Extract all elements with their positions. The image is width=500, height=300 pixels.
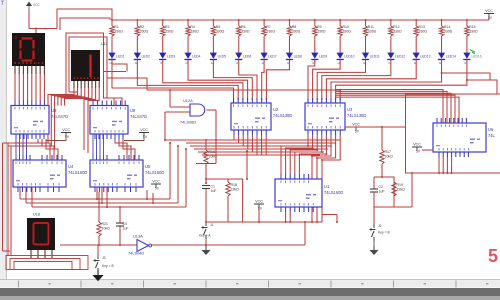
svg-text:VCC: VCC	[152, 180, 160, 184]
svg-text:R10: R10	[342, 25, 348, 29]
svg-text:LED7: LED7	[268, 55, 276, 59]
svg-text:330Ω: 330Ω	[444, 30, 453, 34]
wires U18 nested loops	[6, 256, 88, 270]
svg-text:R19: R19	[397, 183, 403, 187]
display U11 pins	[73, 81, 75, 88]
wire oscillator to U6 loop	[394, 206, 412, 208]
wire VCC power bus	[112, 19, 489, 21]
wire U1 to clock line	[304, 222, 306, 245]
svg-text:330Ω: 330Ω	[114, 30, 123, 34]
svg-text:10kΩ: 10kΩ	[209, 155, 218, 159]
resistor R19 22k Ohm	[392, 182, 405, 196]
resistor R13 330 Ohm	[414, 19, 427, 53]
LED LED14 (blue)	[438, 53, 456, 66]
svg-text:VCC: VCC	[62, 128, 70, 132]
ground J2	[370, 246, 379, 255]
wire U1 to right	[322, 214, 337, 216]
svg-text:G: G	[464, 61, 466, 65]
wire left bus inner vertical	[10, 146, 12, 256]
IC U9 74LS47D	[90, 101, 147, 140]
resistor R10 330 Ohm	[338, 19, 351, 53]
svg-text:LED8: LED8	[294, 55, 302, 59]
wires U8 to U4 blue bus	[15, 134, 17, 160]
svg-text:R6: R6	[241, 25, 246, 29]
svg-text:U3: U3	[347, 107, 353, 112]
svg-text:U1: U1	[324, 184, 330, 189]
svg-text:22kΩ: 22kΩ	[397, 188, 406, 192]
svg-text:G: G	[363, 61, 365, 65]
LED LED10 (blue)	[337, 53, 355, 66]
svg-text:74LS160D: 74LS160D	[68, 170, 87, 175]
svg-text:R1: R1	[114, 25, 119, 29]
svg-text:U2: U2	[273, 107, 279, 112]
wire to gate U12A input A	[169, 89, 171, 91]
power VCC symbol U6	[412, 143, 422, 154]
svg-text:74L: 74L	[488, 133, 496, 138]
svg-text:LED5: LED5	[218, 55, 226, 59]
wires bundle down-left to counters	[169, 143, 171, 199]
svg-text:G: G	[312, 61, 314, 65]
wire VCC to U1	[258, 208, 260, 223]
svg-text:74LS08D: 74LS08D	[180, 120, 196, 125]
power VCC symbol U5	[151, 180, 161, 191]
wires U3 outputs to U1	[281, 135, 308, 174]
LED LED7 (blue)	[261, 53, 277, 66]
resistor R2 330 Ohm	[135, 19, 148, 53]
svg-text:LED12: LED12	[395, 55, 405, 59]
svg-text:LED3: LED3	[167, 55, 175, 59]
IC U8 74LS47D	[11, 101, 68, 140]
LED LED1 (blue)	[108, 53, 124, 66]
power VCC symbol U3	[351, 123, 361, 134]
svg-text:G: G	[160, 61, 162, 65]
svg-text:74LS160D: 74LS160D	[145, 170, 164, 175]
svg-text:U11: U11	[101, 42, 108, 46]
svg-text:R8: R8	[292, 25, 297, 29]
svg-text:LED10: LED10	[344, 55, 354, 59]
resistor R3 330 Ohm	[161, 19, 174, 53]
svg-text:74LS47D: 74LS47D	[51, 114, 68, 119]
IC U6 74LS164D	[433, 118, 496, 157]
wires U5 outputs down	[96, 187, 98, 199]
resistor R11 330 Ohm	[363, 19, 376, 53]
resistor R14 330 Ohm	[439, 19, 452, 53]
svg-text:330Ω: 330Ω	[190, 30, 199, 34]
svg-text:G: G	[236, 61, 238, 65]
svg-text:LED6: LED6	[243, 55, 251, 59]
wire right loop outer	[467, 80, 497, 94]
wires U6 outputs down	[438, 157, 440, 173]
resistor R18 22k Ohm	[226, 179, 239, 222]
7-segment display U11 digit 1	[71, 42, 108, 81]
svg-text:LED4: LED4	[192, 55, 200, 59]
LED LED12 (blue)	[387, 53, 405, 66]
svg-text:LED9: LED9	[319, 55, 327, 59]
svg-text:U13A: U13A	[133, 234, 143, 239]
svg-text:VCC: VCC	[352, 123, 360, 127]
wire left bus outer vertical	[2, 143, 4, 251]
wire to gate U12A input B	[165, 111, 190, 113]
7-segment display U18	[27, 213, 55, 251]
wire arcs above display U11	[57, 9, 112, 29]
wire gate U12A output	[207, 109, 217, 111]
resistor R7 330 Ohm	[262, 19, 275, 53]
svg-text:LED13: LED13	[420, 55, 430, 59]
wire to R17	[381, 127, 383, 150]
svg-text:C2: C2	[379, 185, 384, 189]
svg-text:G: G	[439, 61, 441, 65]
svg-text:G: G	[186, 61, 188, 65]
svg-text:330Ω: 330Ω	[266, 30, 275, 34]
power VCC symbol U1	[254, 200, 264, 211]
wire bus U2/U3 outputs	[165, 139, 340, 141]
wires U2 outputs down	[233, 135, 235, 140]
resistor R17 10k Ohm	[380, 150, 393, 164]
wires through chip gap to U4	[47, 106, 49, 144]
power VCC symbol U9	[139, 128, 149, 139]
wire mesh stubs to display area	[104, 71, 127, 73]
AND gate U12A 74LS08D	[180, 98, 205, 125]
wire U5 to R21	[98, 192, 100, 222]
wire left bus vertical	[7, 143, 9, 256]
wire select line to U3	[147, 89, 340, 91]
wires display U11 to U9	[48, 88, 74, 106]
wires U9 to U5 red jogs	[115, 139, 127, 160]
svg-text:R13: R13	[419, 25, 425, 29]
wires U5 VCC down	[146, 190, 148, 199]
wires U4 outputs down	[19, 187, 21, 199]
svg-text:330Ω: 330Ω	[140, 30, 149, 34]
wires U1 outputs	[285, 212, 287, 222]
svg-text:330Ω: 330Ω	[368, 30, 377, 34]
svg-text:R18: R18	[231, 183, 237, 187]
svg-text:74LS47D: 74LS47D	[130, 114, 147, 119]
svg-text:R16: R16	[209, 150, 215, 154]
LED LED8 (blue)	[286, 53, 302, 66]
LED LED9 (blue)	[311, 53, 327, 66]
wire clock line	[60, 244, 305, 246]
ground J3	[92, 270, 103, 281]
LED LED6 (blue)	[235, 53, 251, 66]
resistor R8 330 Ohm	[287, 19, 300, 53]
LED LED13 (blue)	[413, 53, 431, 66]
svg-text:1uF: 1uF	[123, 227, 129, 231]
power VCC symbol U8	[61, 128, 71, 139]
svg-text:Key = B: Key = B	[102, 264, 114, 268]
ruler bar	[0, 280, 500, 288]
switch J2	[370, 224, 391, 241]
wire oscillator loop left	[206, 179, 243, 222]
svg-text:R14: R14	[444, 25, 450, 29]
svg-text:74LS160D: 74LS160D	[324, 190, 343, 195]
svg-text:U9: U9	[130, 108, 136, 113]
svg-text:R5: R5	[216, 25, 221, 29]
IC U4 74LS160D	[13, 155, 87, 192]
svg-text:330Ω: 330Ω	[292, 30, 301, 34]
switch J1	[199, 222, 214, 239]
wires LED9-LED15 to U3 inputs	[308, 59, 315, 100]
svg-text:G: G	[388, 61, 390, 65]
svg-text:330Ω: 330Ω	[165, 30, 174, 34]
resistor R12 330 Ohm	[389, 19, 402, 53]
display U16 pins	[14, 66, 16, 74]
LED LED11 (blue)	[362, 53, 380, 66]
svg-text:LED2: LED2	[142, 55, 150, 59]
resistor R1 330 Ohm	[110, 19, 123, 53]
svg-text:330Ω: 330Ω	[241, 30, 250, 34]
svg-text:1uF: 1uF	[211, 189, 217, 193]
svg-text:LED11: LED11	[370, 55, 380, 59]
wire from bus to loop	[246, 151, 248, 179]
svg-text:R2: R2	[140, 25, 145, 29]
svg-text:R21: R21	[102, 222, 108, 226]
svg-text:J2: J2	[378, 224, 382, 228]
svg-text:Key = A: Key = A	[199, 234, 211, 238]
LED LED2 (blue)	[134, 53, 150, 66]
wire oscillator loop right	[374, 177, 394, 207]
svg-text:R17: R17	[385, 150, 391, 154]
IC U5 74LS160D	[90, 155, 164, 192]
wires to U6 inputs	[336, 90, 443, 124]
svg-text:74LS04D: 74LS04D	[128, 251, 144, 256]
svg-text:1uF: 1uF	[379, 190, 385, 194]
svg-text:U18: U18	[33, 213, 40, 217]
svg-text:10kΩ: 10kΩ	[102, 227, 111, 231]
svg-text:Key = B: Key = B	[378, 231, 390, 235]
wire rows to counters U4/U5	[20, 198, 170, 200]
wires U3 outputs down right of U1	[312, 135, 331, 222]
svg-text:330Ω: 330Ω	[393, 30, 402, 34]
wire VCC to displays	[28, 12, 30, 29]
svg-text:330Ω: 330Ω	[317, 30, 326, 34]
svg-text:22kΩ: 22kΩ	[231, 188, 240, 192]
svg-text:330Ω: 330Ω	[469, 30, 478, 34]
capacitor C1 1uF	[202, 185, 217, 194]
IC U3 74LS138D	[305, 98, 366, 135]
resistor R16 10k Ohm	[204, 150, 217, 164]
capacitor C2 1uF	[370, 185, 385, 194]
resistor R21 10k Ohm	[97, 222, 110, 236]
svg-text:330Ω: 330Ω	[342, 30, 351, 34]
resistor R4 330 Ohm	[186, 19, 199, 53]
svg-text:R15: R15	[469, 25, 475, 29]
svg-text:VCC: VCC	[485, 9, 493, 13]
LED LED3 (blue)	[159, 53, 175, 66]
scrollbar	[0, 288, 500, 296]
svg-text:R7: R7	[266, 25, 271, 29]
svg-text:G: G	[414, 61, 416, 65]
svg-text:LED16: LED16	[472, 55, 482, 59]
svg-text:G: G	[338, 61, 340, 65]
svg-text:U4: U4	[68, 164, 74, 169]
switch J3	[94, 245, 115, 272]
left panel strip	[0, 0, 7, 280]
wires U9 to U5 blue bus	[92, 134, 94, 160]
svg-text:10kΩ: 10kΩ	[385, 155, 394, 159]
wires display U16 to U8	[14, 74, 16, 101]
svg-text:5V: 5V	[355, 130, 360, 134]
svg-text:5: 5	[488, 246, 498, 266]
resistor R6 330 Ohm	[237, 19, 250, 53]
display U18 pins	[30, 250, 32, 258]
IC U1 74LS160D	[275, 174, 343, 212]
wire U1 bottom bus	[206, 221, 322, 223]
svg-text:U6: U6	[488, 127, 494, 132]
svg-text:U5: U5	[145, 164, 151, 169]
svg-text:R3: R3	[165, 25, 170, 29]
svg-text:U12A: U12A	[183, 98, 193, 103]
svg-text:R12: R12	[393, 25, 399, 29]
svg-text:G: G	[110, 61, 112, 65]
resistor R5 330 Ohm	[211, 19, 224, 53]
power VCC symbol top-right	[484, 9, 494, 20]
svg-text:VCC: VCC	[413, 143, 421, 147]
svg-text:74LS138D: 74LS138D	[347, 113, 366, 118]
resistor R15 330 Ohm	[465, 19, 478, 53]
svg-text:5V: 5V	[416, 150, 421, 154]
wire right loop inner	[442, 73, 490, 80]
IC U2 74LS138D	[231, 98, 292, 135]
LED LED16 (green, lit)	[463, 50, 481, 66]
svg-text:U8: U8	[51, 108, 57, 113]
svg-text:C1: C1	[211, 185, 216, 189]
svg-text:VCC: VCC	[140, 128, 148, 132]
svg-text:74LS138D: 74LS138D	[273, 113, 292, 118]
svg-text:J1: J1	[210, 223, 214, 227]
svg-text:R11: R11	[368, 25, 374, 29]
svg-text:5V: 5V	[155, 187, 160, 191]
svg-text:C4: C4	[123, 222, 128, 226]
svg-text:LED14: LED14	[446, 55, 456, 59]
wire bus to R16	[205, 139, 207, 141]
svg-text:G: G	[287, 61, 289, 65]
top-left sheet corner mark	[1, 1, 4, 5]
inverter U13A 74LS04D	[128, 234, 152, 256]
svg-text:R4: R4	[190, 25, 195, 29]
wires LED1-LED8 to U2 inputs	[112, 59, 234, 100]
svg-text:330Ω: 330Ω	[216, 30, 225, 34]
LED LED4 (blue)	[184, 53, 200, 66]
svg-text:G: G	[262, 61, 264, 65]
svg-text:330Ω: 330Ω	[419, 30, 428, 34]
svg-text:LED1: LED1	[116, 55, 124, 59]
svg-text:G: G	[135, 61, 137, 65]
capacitor C4 1uF	[116, 207, 129, 245]
svg-text:G: G	[211, 61, 213, 65]
ground J1	[202, 246, 211, 255]
wires U8 to U4 red jogs	[38, 139, 50, 160]
svg-text:VCC: VCC	[33, 3, 40, 7]
svg-text:VCC: VCC	[255, 200, 263, 204]
power VCC top-left	[26, 2, 49, 32]
svg-text:J3: J3	[102, 256, 106, 260]
7-segment display U16 digit 0	[12, 33, 45, 66]
svg-text:R9: R9	[317, 25, 322, 29]
LED LED5 (blue)	[210, 53, 226, 66]
resistor R9 330 Ohm	[313, 19, 326, 53]
